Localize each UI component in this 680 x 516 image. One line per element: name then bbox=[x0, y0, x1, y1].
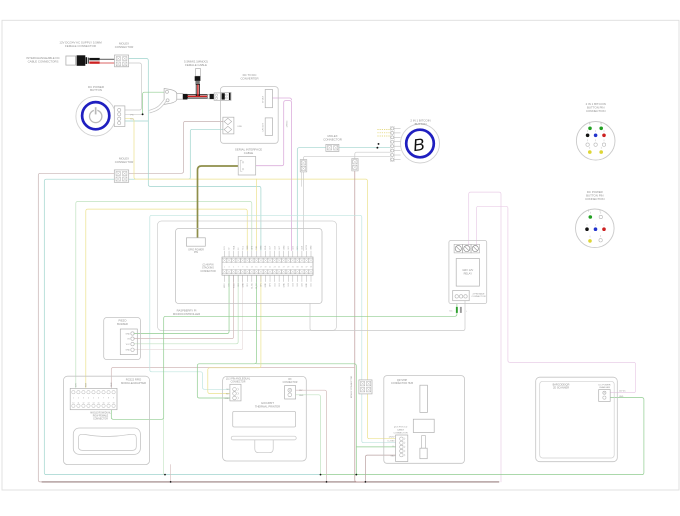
svg-text:ID_SD: ID_SD bbox=[252, 283, 254, 289]
label 12V DC on pink wire bbox=[287, 120, 289, 128]
label molex connector 1 bbox=[115, 42, 134, 49]
svg-text:39: 39 bbox=[310, 267, 312, 269]
converter USB input connector bbox=[223, 117, 242, 134]
wire olive serial interface cable to GPIO power pin bbox=[198, 166, 239, 238]
svg-text:G17: G17 bbox=[270, 246, 272, 250]
relay pin connector bbox=[453, 291, 470, 301]
USB hub connector box bbox=[384, 376, 465, 464]
black supply wire bbox=[89, 58, 114, 60]
T cable vertical branch bbox=[195, 69, 201, 97]
wire yellow branch down to GPIO header bbox=[255, 179, 257, 250]
svg-text:G25: G25 bbox=[229, 283, 231, 287]
label raspberry pi microcontroller bbox=[173, 308, 200, 315]
svg-text:G24: G24 bbox=[302, 246, 304, 250]
relay wire stubs bbox=[450, 307, 468, 313]
wire maroon stub below RFID bbox=[170, 465, 172, 482]
svg-text:BUTTON: BUTTON bbox=[90, 88, 102, 92]
printer paper tab bbox=[255, 440, 273, 453]
DC power button pin connector diagram bbox=[576, 209, 615, 248]
svg-text:9: 9 bbox=[113, 397, 114, 399]
header plug symbol 1 bbox=[300, 160, 307, 172]
svg-text:1: 1 bbox=[224, 267, 225, 269]
svg-text:CONNECTOR HUB: CONNECTOR HUB bbox=[391, 382, 413, 385]
5-pos pin connector bbox=[396, 435, 408, 462]
wire gray from bitcoin button to header plug 2 bbox=[355, 152, 393, 158]
svg-text:25: 25 bbox=[278, 267, 280, 269]
svg-text:TXD: TXD bbox=[256, 245, 258, 249]
wire pale red from GPIO header to piezo buzzer bbox=[134, 275, 234, 338]
RFID antenna slot bbox=[73, 428, 140, 454]
svg-text:GP6: GP6 bbox=[270, 283, 272, 287]
molex connector 3 bbox=[114, 170, 128, 182]
svg-text:MICROCONTROLLER: MICROCONTROLLER bbox=[173, 312, 200, 316]
svg-text:PIN: PIN bbox=[194, 251, 198, 254]
svg-text:CONVERTER: CONVERTER bbox=[240, 77, 258, 81]
wire gray from relay connector to microcontroller bbox=[310, 301, 465, 331]
svg-text:CONNECTOR: CONNECTOR bbox=[323, 138, 342, 142]
svg-text:VCC: VCC bbox=[126, 344, 131, 346]
svg-text:CONNECTOR: CONNECTOR bbox=[93, 419, 108, 421]
GPIO header bottom pin labels bbox=[224, 282, 313, 288]
svg-text:CONNECTION: CONNECTION bbox=[586, 109, 605, 113]
svg-text:2D SCANNER: 2D SCANNER bbox=[553, 387, 569, 390]
svg-text:11: 11 bbox=[77, 403, 79, 405]
svg-text:11: 11 bbox=[246, 267, 248, 269]
svg-text:RELAY: RELAY bbox=[464, 271, 473, 275]
svg-text:3V3: 3V3 bbox=[297, 246, 299, 249]
label printer angle connector bbox=[226, 378, 251, 384]
svg-text:RASPBERRY PI: RASPBERRY PI bbox=[177, 308, 197, 312]
svg-text:10: 10 bbox=[72, 403, 74, 405]
label 5 pos cable connector bbox=[393, 426, 408, 434]
svg-text:12V/5V: 12V/5V bbox=[389, 437, 396, 439]
svg-text:CABLE: CABLE bbox=[244, 151, 254, 155]
svg-text:(2) 3 PIN ANGLE/DUAL: (2) 3 PIN ANGLE/DUAL bbox=[226, 378, 251, 381]
label 40-pin stacking connector bbox=[200, 263, 216, 272]
wire green from barcode scanner along bottom bus bbox=[321, 398, 644, 475]
svg-text:9: 9 bbox=[242, 267, 243, 269]
DC supply jack body bbox=[66, 55, 89, 66]
svg-text:19: 19 bbox=[264, 267, 266, 269]
piezo buzzer pin connector bbox=[120, 329, 137, 355]
svg-text:ANGLE ROW/DUAL: ANGLE ROW/DUAL bbox=[90, 411, 112, 414]
label RX connector bbox=[283, 379, 298, 384]
label bitcoin button pin connection bbox=[586, 102, 606, 113]
label DC power button pin connection bbox=[585, 190, 604, 201]
svg-text:23: 23 bbox=[274, 267, 276, 269]
label RFID module bbox=[121, 378, 146, 385]
svg-text:BUZZER: BUZZER bbox=[117, 322, 128, 326]
label GPIO power pin bbox=[188, 248, 204, 254]
svg-text:G13: G13 bbox=[279, 283, 281, 287]
molex connector 1 bbox=[115, 55, 129, 67]
svg-text:21: 21 bbox=[269, 267, 271, 269]
printer paper slot bbox=[233, 411, 296, 427]
label RFID angle row connector bbox=[90, 411, 112, 420]
svg-text:5: 5 bbox=[233, 267, 234, 269]
label serial interface cable bbox=[235, 148, 262, 155]
svg-text:12V DC: 12V DC bbox=[619, 391, 626, 393]
svg-text:BUTTON: BUTTON bbox=[415, 122, 427, 126]
printer input pin connector bbox=[224, 384, 241, 401]
wire pale red from printer RX connector to maroon bus bbox=[296, 390, 327, 482]
barcode scanner box bbox=[536, 377, 618, 462]
svg-text:GND: GND bbox=[391, 455, 396, 457]
wire pink from relay to barcode scanner power bbox=[477, 206, 636, 392]
svg-text:GND: GND bbox=[111, 382, 113, 387]
svg-text:GND: GND bbox=[306, 283, 308, 288]
wire green from relay to RFID module bbox=[111, 304, 457, 420]
svg-text:12V OUT: 12V OUT bbox=[263, 123, 265, 132]
svg-text:CABLE CONNECTORS: CABLE CONNECTORS bbox=[28, 60, 59, 64]
molex connector 4 bbox=[359, 380, 372, 394]
svg-text:D+/GND: D+/GND bbox=[388, 441, 396, 443]
svg-text:5: 5 bbox=[93, 397, 94, 399]
label barcode scanner bbox=[553, 384, 570, 390]
DC power button bbox=[76, 96, 116, 136]
label molex connector 3 bbox=[115, 157, 134, 164]
svg-text:GND: GND bbox=[619, 396, 624, 398]
white cable from splitter to button bbox=[149, 100, 165, 112]
scanner wire labels bbox=[619, 391, 626, 399]
svg-text:GND: GND bbox=[247, 245, 249, 250]
svg-text:29: 29 bbox=[287, 267, 289, 269]
GPIO header top pin labels bbox=[224, 244, 313, 249]
svg-text:GND: GND bbox=[224, 398, 229, 400]
converter DC input jack bbox=[221, 92, 231, 100]
wire pink from relay to bottom bus bbox=[469, 192, 501, 482]
wire green from GPIO header to piezo buzzer bbox=[134, 275, 229, 333]
hub vertical port bbox=[420, 385, 428, 412]
bitcoin button pin connector diagram bbox=[576, 122, 615, 161]
svg-text:I/O: I/O bbox=[127, 339, 130, 341]
svg-text:G27: G27 bbox=[279, 246, 281, 250]
wire green from GPIO header to thermal printer bbox=[197, 275, 256, 398]
svg-text:FEMALE CABLE: FEMALE CABLE bbox=[185, 63, 207, 67]
thermal printer box bbox=[223, 376, 307, 461]
wire yellow loop to RFID header bbox=[86, 209, 247, 391]
wire pink from serial interface cable to GPIO header bbox=[256, 101, 292, 251]
svg-text:CONNECTOR: CONNECTOR bbox=[393, 432, 407, 434]
splitter cable fan-out bbox=[164, 89, 177, 105]
label 12V DC supply connector bbox=[59, 41, 102, 48]
svg-text:16: 16 bbox=[103, 403, 105, 405]
wire yellow from GPIO header to thermal printer bbox=[208, 275, 261, 393]
svg-text:CONNECTOR: CONNECTOR bbox=[115, 160, 134, 164]
svg-text:GND: GND bbox=[311, 245, 313, 250]
svg-text:CE1: CE1 bbox=[247, 283, 249, 287]
printer RX connector bbox=[285, 386, 304, 399]
hub center port bbox=[413, 419, 434, 432]
svg-text:12: 12 bbox=[82, 403, 84, 405]
svg-text:ID_SC: ID_SC bbox=[256, 283, 258, 289]
svg-text:GND: GND bbox=[265, 283, 267, 288]
label 5.5mm female cable bbox=[184, 60, 208, 67]
wire teal loop around microcontroller to printer and connector bbox=[150, 215, 397, 442]
svg-text:G22: G22 bbox=[288, 246, 290, 250]
svg-text:CE0: CE0 bbox=[238, 283, 240, 287]
svg-text:7: 7 bbox=[103, 397, 104, 399]
T cable right plug bbox=[208, 93, 221, 100]
wire green from printer RX connector to bottom bus bbox=[296, 395, 321, 475]
DC power button pin connector bbox=[114, 106, 134, 127]
svg-text:G18: G18 bbox=[274, 246, 276, 250]
svg-text:2: 2 bbox=[78, 397, 79, 399]
svg-text:15: 15 bbox=[255, 267, 257, 269]
svg-text:13: 13 bbox=[251, 267, 253, 269]
svg-text:CONNECTOR: CONNECTOR bbox=[283, 382, 298, 384]
svg-text:B: B bbox=[412, 135, 426, 155]
label hub connector bbox=[391, 379, 413, 385]
wire pale stub to piezo buzzer bbox=[134, 275, 243, 350]
svg-text:RXD: RXD bbox=[265, 245, 267, 250]
label GRV 12V relay bbox=[462, 268, 473, 275]
wire gray from bitcoin button to header plug 1 bbox=[303, 156, 392, 159]
svg-text:35: 35 bbox=[301, 267, 303, 269]
svg-text:G20: G20 bbox=[302, 283, 304, 287]
svg-text:FEMALE CONNECTOR: FEMALE CONNECTOR bbox=[65, 44, 96, 48]
svg-text:G23: G23 bbox=[292, 246, 294, 250]
yellow dashed stubs at bitcoin button bbox=[377, 130, 390, 136]
printer tear bar bbox=[231, 436, 296, 440]
svg-text:7: 7 bbox=[238, 267, 239, 269]
wire green loop to RFID header bbox=[76, 202, 252, 392]
svg-text:5V: 5V bbox=[229, 247, 231, 250]
microcontroller board bbox=[176, 229, 323, 304]
svg-text:MOSI: MOSI bbox=[306, 244, 308, 249]
bitcoin push button bbox=[401, 124, 440, 163]
label molex connector 4 bbox=[351, 375, 353, 398]
svg-text:CONNECTOR: CONNECTOR bbox=[200, 270, 216, 273]
svg-text:CHARGER: CHARGER bbox=[599, 386, 610, 389]
label GOOJPRT thermal printer bbox=[255, 401, 280, 408]
wire teal from bitcoin button through molex to GPIO header bbox=[297, 148, 392, 251]
svg-text:4 PIN MALE: 4 PIN MALE bbox=[472, 292, 485, 295]
svg-text:1: 1 bbox=[73, 397, 74, 399]
svg-text:5V: 5V bbox=[238, 247, 240, 250]
svg-text:THERMAL PRINTER: THERMAL PRINTER bbox=[255, 405, 280, 409]
svg-text:GP4: GP4 bbox=[252, 246, 254, 250]
svg-text:3: 3 bbox=[229, 267, 230, 269]
svg-text:17: 17 bbox=[108, 403, 110, 405]
wire green from RFID down to bottom bus bbox=[163, 419, 165, 474]
label molex connector 2 bbox=[323, 134, 342, 141]
svg-text:GND: GND bbox=[242, 283, 244, 288]
svg-text:(2) 5 POS 3.0: (2) 5 POS 3.0 bbox=[394, 426, 408, 428]
wire pale red from RFID header to maroon bus bbox=[111, 368, 354, 392]
svg-text:DC: DC bbox=[131, 119, 135, 121]
svg-text:33: 33 bbox=[296, 267, 298, 269]
RFID module box bbox=[64, 376, 150, 464]
wire gray from molex connector to power button bbox=[125, 63, 141, 110]
svg-text:4: 4 bbox=[88, 397, 89, 399]
svg-text:3: 3 bbox=[83, 397, 84, 399]
molex connector 2 bbox=[326, 144, 339, 151]
wire yellow from power button along y179 to far right bbox=[125, 119, 397, 439]
svg-text:CABLE: CABLE bbox=[397, 428, 405, 431]
svg-text:18: 18 bbox=[113, 403, 115, 405]
svg-text:GND: GND bbox=[283, 245, 285, 250]
svg-text:CONNECTOR: CONNECTOR bbox=[115, 45, 134, 49]
RFID dual row header bbox=[70, 388, 117, 409]
wire gray loop around microcontroller bbox=[158, 221, 337, 331]
svg-text:GND: GND bbox=[261, 245, 263, 250]
label DC power charger bbox=[598, 384, 610, 389]
label piezo buzzer bbox=[117, 319, 128, 326]
junction dots on wires bbox=[142, 113, 380, 482]
svg-text:DC POWER: DC POWER bbox=[598, 384, 610, 386]
wire gray from 5-pos connector to maroon bus bbox=[365, 455, 397, 482]
wire green from junction up to splitter cable bbox=[143, 92, 164, 114]
svg-text:RX: RX bbox=[288, 379, 292, 381]
svg-text:G19: G19 bbox=[288, 283, 290, 287]
svg-text:CONNECTOR: CONNECTOR bbox=[471, 296, 485, 298]
svg-text:5V OUT: 5V OUT bbox=[263, 95, 265, 103]
svg-text:G16: G16 bbox=[292, 283, 294, 287]
svg-text:CONNECTOR: CONNECTOR bbox=[231, 382, 246, 384]
svg-text:SDA: SDA bbox=[232, 245, 235, 250]
relay screw terminals bbox=[454, 244, 479, 253]
wire dark maroon bottom bus bbox=[42, 481, 499, 483]
svg-text:27: 27 bbox=[283, 267, 285, 269]
svg-text:6: 6 bbox=[98, 397, 99, 399]
svg-text:SCL: SCL bbox=[242, 246, 244, 250]
piezo buzzer box bbox=[104, 318, 141, 360]
svg-text:MOLEX CONNECTOR: MOLEX CONNECTOR bbox=[351, 375, 353, 398]
label bitcoin button bbox=[410, 118, 430, 125]
svg-text:GND: GND bbox=[299, 395, 304, 397]
svg-text:3V3: 3V3 bbox=[224, 246, 226, 249]
svg-text:31: 31 bbox=[292, 267, 294, 269]
svg-text:13: 13 bbox=[87, 403, 89, 405]
svg-text:37: 37 bbox=[305, 267, 307, 269]
label DC power button bbox=[88, 85, 104, 92]
svg-text:DC: DC bbox=[450, 311, 453, 313]
hub small stem bbox=[420, 436, 427, 459]
wire gray bus from DC-DC converter through molex down left side bbox=[38, 121, 223, 482]
svg-text:GND: GND bbox=[283, 283, 285, 288]
svg-text:GND: GND bbox=[126, 333, 131, 335]
RFID header pin labels bbox=[76, 382, 114, 387]
scanner DC connector bbox=[599, 390, 611, 402]
bitcoin button pin strip bbox=[390, 126, 400, 161]
svg-text:ROW FEMALE: ROW FEMALE bbox=[93, 415, 109, 418]
svg-text:SCLK: SCLK bbox=[233, 282, 235, 288]
svg-text:+: + bbox=[466, 311, 468, 313]
serial interface cable box bbox=[238, 157, 256, 176]
svg-text:MISO: MISO bbox=[224, 283, 226, 288]
header plug symbol 2 bbox=[352, 159, 358, 171]
relay module box bbox=[449, 241, 487, 304]
converter 5V output port bbox=[263, 90, 273, 108]
GPIO power pin box bbox=[187, 238, 206, 246]
svg-text:12V DC: 12V DC bbox=[287, 120, 289, 128]
svg-text:CONNECTION: CONNECTION bbox=[585, 197, 604, 201]
splitter white plug bbox=[177, 94, 183, 100]
wire gray below header plug 1 bbox=[302, 172, 304, 251]
svg-text:G12: G12 bbox=[274, 283, 276, 287]
relay body bbox=[456, 259, 479, 287]
svg-text:GP5: GP5 bbox=[261, 283, 263, 287]
label interchangeable DC cable connectors bbox=[26, 56, 59, 63]
wire maroon from header plug 2 down to bottom bus bbox=[355, 171, 366, 482]
red supply wire bbox=[89, 62, 114, 64]
DC to DC converter box bbox=[221, 87, 279, 144]
converter 12V output port bbox=[263, 118, 273, 135]
splitter black plug bbox=[183, 94, 188, 100]
wire teal from molex connector to GPIO header bbox=[129, 59, 261, 251]
label DC to DC converter bbox=[240, 73, 258, 80]
wire gray power-switch stub bbox=[125, 113, 142, 115]
svg-text:G26: G26 bbox=[297, 283, 299, 287]
svg-text:MODULE/ADAPTER: MODULE/ADAPTER bbox=[121, 381, 146, 385]
wire teal branch to power button pin bbox=[125, 120, 148, 122]
wire teal bus from DC-DC converter through molex down left side and along bottom bbox=[44, 129, 320, 474]
svg-text:14: 14 bbox=[92, 403, 94, 405]
svg-text:USB: USB bbox=[238, 126, 243, 128]
svg-text:GND: GND bbox=[126, 350, 131, 352]
svg-text:G21: G21 bbox=[311, 283, 313, 287]
svg-text:8: 8 bbox=[108, 397, 109, 399]
40-pin GPIO stacking header bbox=[222, 251, 313, 282]
wire pink 12V output of DC-DC converter bbox=[273, 98, 292, 100]
svg-text:17: 17 bbox=[260, 267, 262, 269]
5-pos wire labels bbox=[388, 437, 396, 458]
T cable horizontal red core bbox=[187, 95, 207, 98]
wire gray stub below header plug 1b bbox=[301, 172, 303, 187]
label 4 pin male connector bbox=[471, 292, 485, 298]
wire green 2 from GPIO header to piezo buzzer bbox=[134, 275, 238, 344]
wire green branch to 5-pos connector bbox=[256, 364, 397, 475]
svg-text:15: 15 bbox=[98, 403, 100, 405]
